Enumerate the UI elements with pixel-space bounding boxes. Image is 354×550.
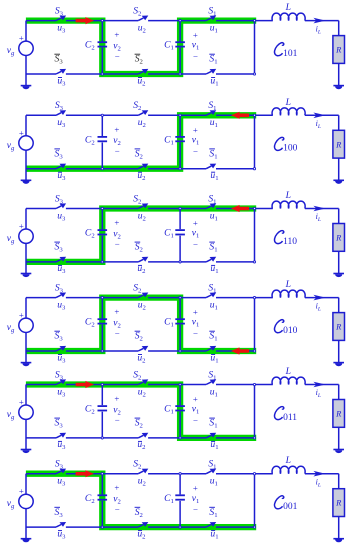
current arrow iL (row 5) (313, 382, 325, 388)
svg-text:−: − (115, 239, 120, 249)
svg-text:−: − (193, 52, 198, 62)
polarity labels of C1: + v1 - (192, 394, 200, 426)
voltage source vg (row 5) (19, 385, 33, 450)
node: C1 bottom junction (row 3) (179, 261, 181, 263)
row label C_110 (274, 231, 297, 247)
wire: inductor to R corner (row 3) (305, 208, 339, 210)
wire: corner down to R (row 5) (338, 385, 340, 400)
wire bottom: S3bar to S2bar (row 5) (66, 437, 138, 439)
red current-direction arrow (row 3) (231, 205, 249, 212)
resistor R (row 3) (333, 224, 345, 252)
polarity labels of C1: + v1 - (192, 125, 200, 157)
inductor L (row 1) (272, 13, 305, 20)
wire: corner down to R (row 4) (338, 298, 340, 313)
wire top: vg to S3 (row 6) (26, 473, 56, 475)
capacitor C1 (row 3) (175, 209, 185, 262)
capacitor C1 (row 5) (175, 385, 185, 438)
polarity labels of C1: + v1 - (192, 30, 200, 62)
switch S3 (row 1) (56, 16, 66, 21)
wire top: vg to S3 (row 2) (26, 114, 56, 116)
polarity labels of C1: + v1 - (192, 307, 200, 339)
svg-text:+: + (114, 483, 119, 493)
current arrow iL (row 6) (313, 471, 325, 477)
wire top: S3 to S2 (row 2) (66, 114, 138, 116)
svg-text:−: − (193, 505, 198, 515)
wire: switch-node vertical (row 6) (254, 474, 256, 527)
node: switch-node top (row 3) (253, 207, 255, 209)
svg-text:L: L (285, 190, 291, 201)
node: switch-node top (row 2) (253, 114, 255, 116)
node: C2 bottom junction (row 3) (101, 261, 103, 263)
svg-text:−: − (115, 328, 120, 338)
switch S3 (row 5) (56, 379, 66, 384)
wire: corner down to R (row 3) (338, 209, 340, 224)
node: C2 top junction (row 6) (101, 473, 103, 475)
switch S2bar (row 5) (138, 433, 148, 438)
wire: inductor to R corner (row 2) (305, 114, 339, 116)
svg-text:+: + (114, 307, 119, 317)
svg-text:011: 011 (283, 413, 297, 423)
wire: R to ground (row 6) (338, 517, 340, 539)
resistor R (row 5) (333, 400, 345, 428)
inductor L (row 4) (272, 290, 305, 297)
wire: corner down to R (row 1) (338, 21, 340, 36)
svg-text:R: R (335, 45, 342, 55)
wire bottom: S1bar to node (row 4) (216, 350, 255, 352)
svg-text:R: R (335, 139, 342, 149)
switch S1 (row 2) (206, 110, 216, 115)
polarity labels of C2: + v2 - (113, 483, 121, 515)
wire bottom: S1bar to node (row 6) (216, 526, 255, 528)
red current-direction arrow (row 1) (76, 17, 94, 24)
ground at vg (row 3) (21, 273, 32, 277)
node: switch-node bottom (row 6) (253, 526, 255, 528)
voltage source vg (row 1) (19, 21, 33, 86)
wire top: S2 to S1 (row 1) (148, 20, 206, 22)
switch S3 (row 4) (56, 293, 66, 298)
switch S1bar (row 5) (206, 433, 216, 438)
switch S1bar (row 1) (206, 69, 216, 74)
node: C2 top junction (row 5) (101, 383, 103, 385)
red current-direction arrow (row 4) (231, 347, 249, 354)
wire: switch-node vertical (row 1) (254, 21, 256, 74)
wire: corner down to R (row 2) (338, 115, 340, 130)
svg-text:+: + (19, 310, 24, 320)
switch S3bar (row 2) (56, 164, 66, 169)
svg-text:+: + (193, 307, 198, 317)
current arrow iL (row 3) (313, 206, 325, 212)
green conduction path highlight (row 2) (26, 115, 256, 168)
inductor L (row 2) (272, 108, 305, 115)
wire top: S1 to inductor (row 3) (216, 208, 273, 210)
node: C2 bottom junction (row 2) (101, 168, 103, 170)
wire top: S2 to S1 (row 3) (148, 208, 206, 210)
wire top: S2 to S1 (row 5) (148, 384, 206, 386)
svg-text:+: + (114, 394, 119, 404)
svg-text:L: L (285, 2, 291, 13)
ground at R (row 1) (333, 85, 344, 89)
node: C2 bottom junction (row 6) (101, 526, 103, 528)
wire bottom: vg to S3bar (row 6) (26, 526, 56, 528)
green conduction path highlight (row 1) (26, 21, 256, 74)
svg-text:+: + (19, 33, 24, 43)
voltage source vg (row 4) (19, 298, 33, 363)
svg-text:+: + (19, 221, 24, 231)
switch S1bar (row 4) (206, 346, 216, 351)
wire top: vg to S3 (row 3) (26, 208, 56, 210)
capacitor C1 (row 4) (175, 298, 185, 351)
node: switch-node top (row 5) (253, 383, 255, 385)
switch S3 (row 2) (56, 110, 66, 115)
svg-text:L: L (285, 97, 291, 108)
svg-text:R: R (335, 498, 342, 508)
capacitor C2 (row 6) (98, 474, 108, 527)
wire bottom: S3bar to S2bar (row 6) (66, 526, 138, 528)
node: C1 bottom junction (row 5) (179, 437, 181, 439)
switch S1bar (row 6) (206, 522, 216, 527)
voltage source vg (row 2) (19, 115, 33, 180)
ground at R (row 5) (333, 449, 344, 453)
wire bottom: S1bar to node (row 2) (216, 168, 255, 170)
switch S2bar (row 1) (138, 69, 148, 74)
switch S2 (row 1) (138, 16, 148, 21)
switch S3bar (row 1) (56, 69, 66, 74)
switch S2bar (row 3) (138, 257, 148, 262)
switch S1bar (row 2) (206, 164, 216, 169)
wire: inductor to R corner (row 6) (305, 473, 339, 475)
node: C1 top junction (row 3) (179, 207, 181, 209)
node: C2 top junction (row 2) (101, 114, 103, 116)
switch S2 (row 4) (138, 293, 148, 298)
ground at R (row 2) (333, 180, 344, 184)
ground at vg (row 4) (21, 362, 32, 366)
svg-text:−: − (115, 146, 120, 156)
wire: inductor to R corner (row 5) (305, 384, 339, 386)
wire: corner down to R (row 6) (338, 474, 340, 489)
wire bottom: S2bar to S1bar (row 3) (148, 261, 206, 263)
current arrow iL (row 4) (313, 295, 325, 301)
node: C2 bottom junction (row 4) (101, 350, 103, 352)
svg-text:−: − (115, 415, 120, 425)
wire bottom: vg to S3bar (row 3) (26, 261, 56, 263)
ground at vg (row 5) (21, 449, 32, 453)
green conduction path highlight (row 5) (26, 385, 256, 438)
resistor R (row 4) (333, 313, 345, 341)
ground at vg (row 2) (21, 180, 32, 184)
svg-text:L: L (285, 455, 291, 466)
node: C2 top junction (row 3) (101, 207, 103, 209)
capacitor C1 (row 1) (175, 21, 185, 74)
current arrow iL (row 1) (313, 18, 325, 24)
node: switch-node top (row 4) (253, 297, 255, 299)
resistor R (row 2) (333, 130, 345, 158)
switch S1 (row 3) (206, 203, 216, 208)
voltage source vg (row 6) (19, 474, 33, 539)
switch S3bar (row 5) (56, 433, 66, 438)
green conduction path highlight (row 3) (26, 209, 256, 262)
wire top: S1 to inductor (row 4) (216, 297, 273, 299)
inductor L (row 5) (272, 377, 305, 384)
switch S1 (row 1) (206, 16, 216, 21)
switch S2 (row 5) (138, 379, 148, 384)
node: switch-node bottom (row 4) (253, 350, 255, 352)
wire: switch-node vertical (row 2) (254, 115, 256, 168)
svg-text:110: 110 (283, 237, 297, 247)
switch S2bar (row 2) (138, 164, 148, 169)
wire top: vg to S3 (row 5) (26, 384, 56, 386)
red current-direction arrow (row 5) (76, 381, 94, 388)
wire top: S3 to S2 (row 6) (66, 473, 138, 475)
svg-text:+: + (114, 30, 119, 40)
svg-text:100: 100 (283, 144, 298, 154)
svg-text:L: L (285, 279, 291, 290)
switch S2 (row 2) (138, 110, 148, 115)
wire: R to ground (row 5) (338, 427, 340, 449)
node: switch-node top (row 6) (253, 473, 255, 475)
svg-text:+: + (193, 30, 198, 40)
wire bottom: S2bar to S1bar (row 6) (148, 526, 206, 528)
wire bottom: S1bar to node (row 5) (216, 437, 255, 439)
wire bottom: vg to S3bar (row 4) (26, 350, 56, 352)
wire bottom: S2bar to S1bar (row 5) (148, 437, 206, 439)
polarity labels of C2: + v2 - (113, 394, 121, 426)
polarity labels of C2: + v2 - (113, 124, 121, 156)
wire top: S1 to inductor (row 2) (216, 114, 273, 116)
wire bottom: S1bar to node (row 1) (216, 73, 255, 75)
row label C_010 (274, 320, 297, 336)
node: C2 bottom junction (row 5) (101, 437, 103, 439)
wire: switch-node vertical (row 3) (254, 209, 256, 262)
node: switch-node bottom (row 5) (253, 437, 255, 439)
svg-text:+: + (19, 397, 24, 407)
wire: inductor to R corner (row 1) (305, 20, 339, 22)
wire bottom: vg to S3bar (row 5) (26, 437, 56, 439)
row label C_100 (274, 137, 297, 153)
wire: R to ground (row 2) (338, 158, 340, 180)
switch S3bar (row 3) (56, 257, 66, 262)
wire bottom: S3bar to S2bar (row 1) (66, 73, 138, 75)
wire bottom: S1bar to node (row 3) (216, 261, 255, 263)
node: C1 top junction (row 6) (179, 473, 181, 475)
wire top: S3 to S2 (row 1) (66, 20, 138, 22)
capacitor C1 (row 6) (175, 474, 185, 527)
wire top: S2 to S1 (row 6) (148, 473, 206, 475)
node: C2 top junction (row 1) (101, 20, 103, 22)
switch S3bar (row 4) (56, 346, 66, 351)
svg-text:101: 101 (283, 49, 298, 59)
svg-text:+: + (114, 218, 119, 228)
wire bottom: S2bar to S1bar (row 1) (148, 73, 206, 75)
capacitor C1 (row 2) (175, 115, 185, 168)
polarity labels of C2: + v2 - (113, 307, 121, 339)
switch S1 (row 6) (206, 469, 216, 474)
row label C_001 (274, 496, 297, 512)
switch S3 (row 6) (56, 469, 66, 474)
capacitor C2 (row 5) (98, 385, 108, 438)
wire top: S1 to inductor (row 1) (216, 20, 273, 22)
wire top: S2 to S1 (row 4) (148, 297, 206, 299)
node: switch-node bottom (row 1) (253, 73, 255, 75)
wire top: S3 to S2 (row 4) (66, 297, 138, 299)
node: switch-node top (row 1) (253, 20, 255, 22)
ground at vg (row 1) (21, 85, 32, 89)
red current-direction arrow (row 2) (231, 112, 249, 119)
node: switch-node bottom (row 2) (253, 168, 255, 170)
svg-text:−: − (115, 504, 120, 514)
wire bottom: vg to S3bar (row 1) (26, 73, 56, 75)
ground at R (row 6) (333, 538, 344, 542)
switch S3 (row 3) (56, 203, 66, 208)
wire top: S3 to S2 (row 3) (66, 208, 138, 210)
current arrow iL (row 2) (313, 113, 325, 119)
svg-text:+: + (19, 486, 24, 496)
green conduction path highlight (row 4) (26, 298, 256, 351)
svg-text:+: + (193, 483, 198, 493)
node: switch-node bottom (row 3) (253, 261, 255, 263)
svg-text:−: − (193, 240, 198, 250)
polarity labels of C2: + v2 - (113, 30, 121, 62)
row label C_011 (274, 407, 297, 423)
wire bottom: S2bar to S1bar (row 4) (148, 350, 206, 352)
svg-text:−: − (193, 329, 198, 339)
wire top: S1 to inductor (row 5) (216, 384, 273, 386)
node: C1 top junction (row 4) (179, 297, 181, 299)
wire bottom: S3bar to S2bar (row 3) (66, 261, 138, 263)
wire bottom: vg to S3bar (row 2) (26, 168, 56, 170)
wire top: vg to S3 (row 1) (26, 20, 56, 22)
capacitor C2 (row 2) (98, 115, 108, 168)
row label C_101 (274, 43, 297, 59)
wire: R to ground (row 1) (338, 63, 340, 85)
svg-text:+: + (193, 218, 198, 228)
node: C2 bottom junction (row 1) (101, 73, 103, 75)
svg-text:+: + (114, 124, 119, 134)
switch S1 (row 5) (206, 379, 216, 384)
capacitor C2 (row 1) (98, 21, 108, 74)
resistor R (row 6) (333, 489, 345, 517)
switch S3bar (row 6) (56, 522, 66, 527)
svg-text:R: R (335, 409, 342, 419)
wire top: S3 to S2 (row 5) (66, 384, 138, 386)
wire bottom: S3bar to S2bar (row 2) (66, 168, 138, 170)
svg-text:001: 001 (283, 502, 298, 512)
node: C1 top junction (row 5) (179, 383, 181, 385)
switch S2 (row 3) (138, 203, 148, 208)
node: C1 top junction (row 2) (179, 114, 181, 116)
node: C1 top junction (row 1) (179, 20, 181, 22)
green conduction path highlight (row 6) (26, 474, 256, 527)
node: C2 top junction (row 4) (101, 297, 103, 299)
wire top: vg to S3 (row 4) (26, 297, 56, 299)
svg-text:−: − (115, 51, 120, 61)
svg-text:010: 010 (283, 326, 298, 336)
switch S2 (row 6) (138, 469, 148, 474)
node: C1 bottom junction (row 1) (179, 73, 181, 75)
svg-text:−: − (193, 416, 198, 426)
svg-text:+: + (193, 125, 198, 135)
svg-text:R: R (335, 233, 342, 243)
wire bottom: S2bar to S1bar (row 2) (148, 168, 206, 170)
polarity labels of C1: + v1 - (192, 483, 200, 515)
voltage source vg (row 3) (19, 209, 33, 274)
inductor L (row 3) (272, 201, 305, 208)
node: C1 bottom junction (row 2) (179, 168, 181, 170)
switch S2bar (row 4) (138, 346, 148, 351)
svg-text:L: L (285, 366, 291, 377)
svg-text:+: + (19, 128, 24, 138)
node: C1 bottom junction (row 6) (179, 526, 181, 528)
wire: switch-node vertical (row 5) (254, 385, 256, 438)
switch S1 (row 4) (206, 293, 216, 298)
svg-text:−: − (193, 146, 198, 156)
switch S1bar (row 3) (206, 257, 216, 262)
svg-text:+: + (193, 394, 198, 404)
node: C1 bottom junction (row 4) (179, 350, 181, 352)
polarity labels of C1: + v1 - (192, 218, 200, 250)
capacitor C2 (row 3) (98, 209, 108, 262)
wire: R to ground (row 4) (338, 340, 340, 362)
ground at R (row 3) (333, 273, 344, 277)
capacitor C2 (row 4) (98, 298, 108, 351)
wire: switch-node vertical (row 4) (254, 298, 256, 351)
ground at vg (row 6) (21, 538, 32, 542)
wire top: S2 to S1 (row 2) (148, 114, 206, 116)
wire bottom: S3bar to S2bar (row 4) (66, 350, 138, 352)
switch S2bar (row 6) (138, 522, 148, 527)
red current-direction arrow (row 6) (76, 470, 94, 477)
resistor R (row 1) (333, 36, 345, 64)
ground at R (row 4) (333, 362, 344, 366)
wire top: S1 to inductor (row 6) (216, 473, 273, 475)
wire: inductor to R corner (row 4) (305, 297, 339, 299)
svg-text:R: R (335, 322, 342, 332)
wire: R to ground (row 3) (338, 251, 340, 273)
inductor L (row 6) (272, 466, 305, 473)
polarity labels of C2: + v2 - (113, 218, 121, 250)
